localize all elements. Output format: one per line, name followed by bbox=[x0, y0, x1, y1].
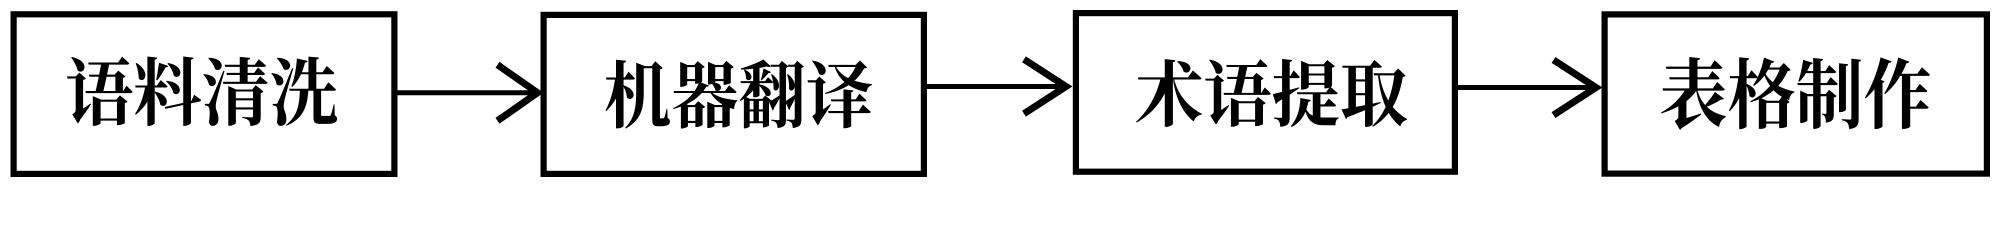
flowchart diagram bbox=[0, 0, 2000, 190]
label 表格制作 bbox=[1661, 57, 1930, 130]
wire arrow 2 shaft bbox=[925, 84, 1065, 89]
arrowhead 2 bbox=[1024, 59, 1066, 113]
process box 2: 机器翻译 bbox=[544, 15, 924, 174]
arrowhead 1 bbox=[498, 65, 538, 121]
process box 3: 术语提取 bbox=[1076, 13, 1455, 172]
process box 1: 语料清洗 bbox=[14, 14, 395, 174]
label 术语提取 bbox=[1136, 59, 1407, 127]
label 机器翻译 bbox=[605, 60, 871, 129]
wire arrow 1 shaft bbox=[396, 90, 537, 95]
process box 4: 表格制作 bbox=[1605, 14, 1987, 173]
label 语料清洗 bbox=[67, 56, 337, 126]
arrowhead 3 bbox=[1554, 60, 1597, 115]
wire arrow 3 shaft bbox=[1456, 85, 1595, 90]
